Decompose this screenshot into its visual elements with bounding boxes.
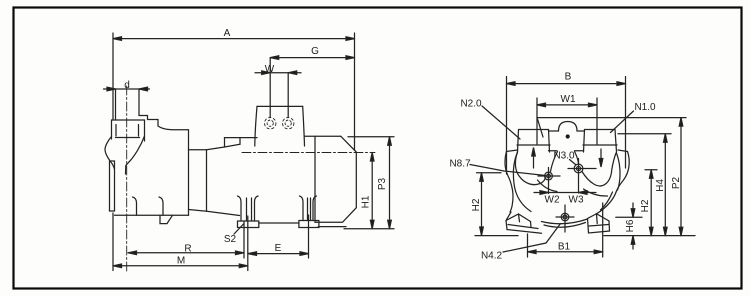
port flow arrow down (suction) [599, 149, 603, 167]
body side right inner [617, 153, 621, 190]
dimension G line [270, 56, 354, 60]
dimension M [113, 264, 248, 268]
port boss arc right [582, 153, 616, 186]
drain cock N3.0 [574, 164, 583, 173]
motor foot left pad [238, 221, 259, 228]
mystery short diagonal [538, 119, 544, 137]
svg-text:N1.0: N1.0 [634, 102, 656, 113]
svg-text:N4.2: N4.2 [481, 251, 503, 262]
bearing bracket [189, 150, 207, 212]
svg-text:R: R [184, 244, 191, 255]
svg-text:H1: H1 [361, 195, 372, 208]
body ledge left [507, 150, 518, 152]
W2 W3 dimension line [534, 191, 596, 195]
body side left leg [516, 191, 532, 212]
casing top step contour [139, 116, 189, 130]
svg-text:W: W [265, 64, 275, 75]
leader N4.2 [503, 224, 561, 253]
svg-text:P3: P3 [377, 177, 388, 190]
leader N1.0 [611, 111, 634, 133]
body side right [617, 152, 630, 192]
motor frame top right [305, 135, 341, 137]
motor foot right pad [299, 221, 319, 228]
dimension H4 [664, 134, 668, 236]
motor frame top left [225, 137, 258, 139]
right lobe arc [584, 189, 608, 196]
svg-text:B1: B1 [558, 242, 571, 253]
bottom curves between feet [542, 219, 588, 224]
port flow arrow up (discharge) [532, 148, 536, 169]
svg-text:E: E [275, 243, 282, 254]
dimension H2 right [649, 170, 653, 236]
svg-text:W1: W1 [561, 94, 576, 105]
gland extension lines [269, 58, 271, 118]
dimension B1 [528, 250, 603, 254]
body right leg inner [601, 192, 613, 210]
dimension W1 [537, 103, 597, 107]
dimension B [507, 82, 626, 86]
extension lines right of motor [348, 136, 394, 138]
left port (discharge N2) [519, 129, 549, 131]
svg-text:S2: S2 [224, 234, 237, 245]
right port (suction N1) [585, 129, 616, 131]
left foot [506, 212, 542, 233]
svg-text:d: d [124, 80, 130, 91]
pump foot [160, 215, 173, 223]
terminal box [257, 105, 303, 107]
casing rib 2 [159, 197, 163, 215]
svg-text:B: B [565, 72, 572, 83]
valley arc to N3.0 [575, 152, 579, 164]
motor foot left legs [238, 196, 242, 221]
top edge between ports [549, 130, 559, 132]
svg-text:M: M [177, 256, 185, 267]
shelf and valley between ports [549, 150, 558, 152]
svg-text:H6: H6 [625, 219, 636, 232]
svg-text:N3.0: N3.0 [553, 151, 575, 162]
extension lines bottom left view [112, 213, 114, 271]
svg-text:G: G [311, 46, 319, 57]
suction flange [112, 119, 145, 121]
port boss arc left [515, 152, 545, 185]
baseline between feet [259, 222, 299, 224]
dimension H1 [370, 153, 374, 229]
dimension P3 [388, 137, 392, 229]
body ledge right [618, 150, 628, 152]
svg-text:H2: H2 [640, 199, 651, 212]
centerline motor axis (dash-dot) [242, 152, 375, 154]
inlet funnel left [105, 137, 115, 170]
drain cock N8.7 [545, 172, 553, 180]
svg-text:W3: W3 [569, 195, 584, 206]
cable gland 2 [283, 118, 294, 129]
dimension E [248, 252, 309, 256]
valley arc to N8.7 [551, 152, 558, 172]
casing cover plate [110, 161, 115, 211]
body side left inner [513, 152, 517, 191]
svg-text:P2: P2 [671, 176, 682, 189]
dimension d line [104, 87, 150, 91]
casing rib 1 [133, 197, 137, 215]
left lobe arc [538, 180, 558, 192]
dimension H6 [631, 203, 635, 249]
centerline pipe (dash-dot) [126, 86, 128, 271]
inlet pipe [115, 89, 117, 120]
drain plug N4.2 [561, 213, 569, 221]
svg-text:H4: H4 [655, 179, 666, 192]
cable gland 1 [265, 118, 276, 129]
leader N3.0 [570, 160, 576, 165]
base extension right view [475, 235, 518, 237]
dimension W line (outside arrows) [255, 71, 301, 75]
dimension A line [113, 37, 355, 41]
svg-text:N8.7: N8.7 [449, 159, 471, 170]
pump casing [188, 130, 190, 216]
eyebolt lug [559, 122, 578, 132]
P2 top extension [537, 117, 686, 119]
leader S2 [234, 224, 244, 234]
body side left [505, 152, 513, 213]
dimension P2 [679, 118, 683, 236]
motor contour slant [207, 144, 241, 150]
svg-text:A: A [224, 28, 231, 39]
fan cowl [315, 136, 356, 222]
right foot [588, 214, 610, 234]
inlet funnel right [126, 136, 145, 174]
bellhousing bottom slant [189, 210, 240, 216]
svg-text:H2: H2 [471, 198, 482, 211]
svg-text:N2.0: N2.0 [460, 99, 482, 110]
leader N2.0 [482, 106, 520, 139]
body right leg outer [597, 191, 617, 214]
svg-text:W2: W2 [545, 195, 560, 206]
leader N8.7 [470, 165, 546, 176]
dimension H2 left [480, 173, 484, 236]
motor base rail [318, 226, 346, 228]
dimension A extension lines [112, 33, 114, 120]
motor foot right legs [300, 196, 304, 221]
dimension R [128, 251, 244, 255]
